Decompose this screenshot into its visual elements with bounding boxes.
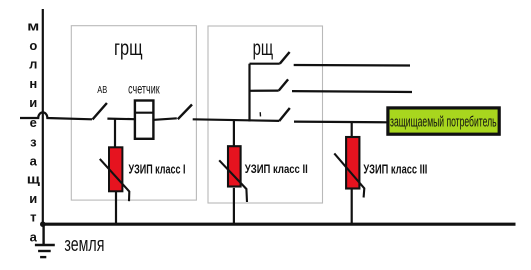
label молниезащита (vertical word) <box>27 20 40 245</box>
switch (рщ middle, open blade) <box>279 79 288 90</box>
wire: earth bus to ground electrode <box>42 224 44 244</box>
wire: УЗИП II to earth bus <box>233 188 235 224</box>
svg-text:о: о <box>29 38 37 53</box>
svg-text:а: а <box>30 154 38 169</box>
svg-text:н: н <box>29 76 37 91</box>
wire: top branch output <box>294 64 410 67</box>
wire: tap down to УЗИП I <box>114 118 116 147</box>
junction tick mark <box>259 112 261 116</box>
svg-text:земля: земля <box>64 233 104 256</box>
svg-text:м: м <box>27 20 39 34</box>
earth bus (PE) <box>43 223 516 226</box>
varistor slash УЗИП I <box>100 159 130 201</box>
breaker switch АВ (open blade) <box>93 103 107 119</box>
wire: middle branch output <box>292 90 412 93</box>
surge arrester УЗИП класс II (varistor body) <box>228 146 241 186</box>
enclosure box грщ (main switchboard) <box>71 26 196 200</box>
meter счетчик divider <box>134 112 154 114</box>
svg-text:щ: щ <box>27 173 40 187</box>
protected load box (защищаемый потребитель) <box>388 108 499 134</box>
enclosure box рщ (distribution board) <box>208 26 323 203</box>
svg-text:л: л <box>29 57 37 72</box>
wire: breaker to meter <box>107 117 134 120</box>
svg-text:АВ: АВ <box>97 85 107 96</box>
switch (рщ top, open blade) <box>280 52 290 64</box>
svg-text:и: и <box>29 95 37 110</box>
junction: down-conductor to earth bus <box>40 221 46 227</box>
meter счетчик (box) <box>135 101 154 139</box>
wire: bottom branch to protected load <box>294 120 387 123</box>
svg-text:УЗИП класс II: УЗИП класс II <box>245 162 308 176</box>
svg-text:т: т <box>30 210 36 225</box>
ground symbol bar 2 <box>38 250 51 252</box>
svg-text:и: и <box>29 191 37 206</box>
wire: грщ output bus to рщ switch <box>193 119 280 121</box>
wire: УЗИП I to earth bus <box>115 191 117 224</box>
wire: tap down to УЗИП II <box>233 120 235 146</box>
switch (грщ output, open blade) <box>178 105 192 120</box>
svg-text:з: з <box>30 135 37 150</box>
surge arrester УЗИП класс III (varistor body) <box>346 137 359 189</box>
switch (рщ bottom, open blade) <box>279 108 290 121</box>
svg-text:грщ: грщ <box>114 37 143 60</box>
varistor slash УЗИП II <box>219 160 247 202</box>
svg-text:счетчик: счетчик <box>128 81 160 96</box>
wire: рщ vertical feeder bus <box>248 64 250 122</box>
wire: tap down to УЗИП III <box>351 121 353 137</box>
wire: stub to top switch <box>250 63 280 65</box>
svg-text:защищаемый потребитель: защищаемый потребитель <box>390 113 497 130</box>
ground symbol bar 3 <box>40 256 46 258</box>
wire: phase input with hop over down-conductor <box>20 112 92 119</box>
wire: УЗИП III to earth bus <box>351 189 353 224</box>
wire: meter to output switch <box>154 118 176 120</box>
svg-text:УЗИП класс III: УЗИП класс III <box>363 163 427 177</box>
svg-text:УЗИП класс I: УЗИП класс I <box>129 162 186 176</box>
lightning protection down-conductor (vertical) <box>42 9 44 224</box>
svg-text:а: а <box>30 229 38 244</box>
varistor slash УЗИП III <box>334 153 364 197</box>
wire: stub to middle switch <box>250 89 279 91</box>
surge arrester УЗИП класс I (varistor body) <box>109 147 122 191</box>
ground symbol bar 1 <box>35 244 55 246</box>
svg-text:рщ: рщ <box>253 37 274 60</box>
